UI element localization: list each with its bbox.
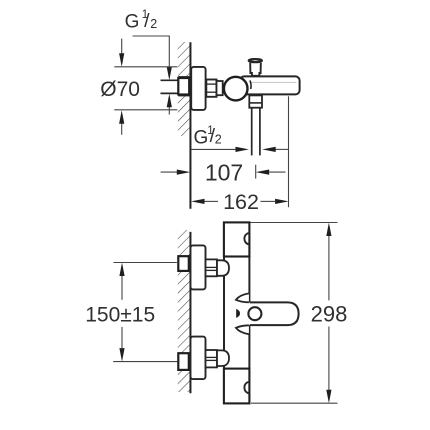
supply pipe stub behind wall bbox=[161, 79, 179, 81]
top escutcheon (plan) bbox=[191, 245, 206, 289]
top union square bbox=[178, 256, 189, 271]
coupling ring bbox=[217, 81, 223, 95]
faint inner line of spout bbox=[251, 81, 297, 83]
svg-text:Ø70: Ø70 bbox=[100, 78, 140, 101]
lower pointer arrow at pipe bbox=[168, 106, 170, 115]
valve body circle (side view) bbox=[224, 77, 248, 101]
shower outlet collar bbox=[249, 95, 262, 107]
298 dim bbox=[328, 236, 330, 300]
svg-text:G: G bbox=[125, 11, 140, 32]
bottom union nut (plan) bbox=[206, 350, 218, 367]
bottom handle nub bbox=[244, 382, 248, 393]
spout (side view) bbox=[240, 76, 300, 94]
fillet arc at spout root bbox=[250, 80, 251, 89]
body right edge segments bbox=[248, 256, 250, 303]
leader line G1/2 top bbox=[133, 36, 170, 68]
knob circle (plan) bbox=[248, 307, 261, 320]
107 dim bbox=[161, 171, 178, 173]
wall surface line (top view) bbox=[189, 42, 191, 209]
dark half-moon mark bbox=[236, 309, 240, 318]
escutcheon (side view) bbox=[191, 67, 205, 110]
wall hatching (plan view) bbox=[178, 230, 190, 392]
svg-text:2: 2 bbox=[150, 17, 157, 31]
upper spout fillet leaf bbox=[236, 293, 249, 302]
svg-text:150±15: 150±15 bbox=[85, 303, 155, 326]
union nipple lips bbox=[178, 76, 190, 78]
150 extension lines bbox=[113, 262, 176, 264]
Ø70 outside arrows bbox=[121, 39, 123, 54]
wall surface line (plan view) bbox=[189, 232, 191, 393]
bottom union square bbox=[178, 353, 189, 370]
bottom handle (plan) bbox=[224, 369, 250, 404]
150±15 dim bbox=[121, 276, 123, 300]
top union nut (plan) bbox=[206, 259, 218, 276]
svg-text:2: 2 bbox=[215, 133, 222, 147]
svg-text:107: 107 bbox=[205, 160, 243, 186]
162 dim bbox=[191, 199, 205, 204]
G1/2 dim line (outlet) bbox=[192, 148, 237, 150]
union hex nut (side view) bbox=[206, 80, 216, 97]
diverter knob on top of spout bbox=[250, 63, 261, 76]
spout (plan view stadium) bbox=[250, 302, 299, 325]
svg-text:/: / bbox=[144, 10, 150, 32]
svg-text:162: 162 bbox=[223, 190, 259, 214]
G1/2 union nipple square (in wall) bbox=[178, 78, 189, 95]
lower spout fillet leaf bbox=[236, 325, 249, 334]
shower outlet tube G1/2 bbox=[251, 108, 253, 156]
wall hatching (top view) bbox=[178, 42, 190, 136]
top olive bbox=[217, 260, 229, 276]
body left edge bbox=[223, 257, 225, 370]
svg-text:298: 298 bbox=[311, 302, 348, 327]
top handle (plan) bbox=[224, 222, 250, 256]
298 extension lines bbox=[251, 222, 338, 224]
bottom olive bbox=[217, 350, 229, 366]
top handle nub bbox=[244, 233, 248, 244]
Ø70 extension lines bbox=[114, 66, 177, 68]
svg-text:G: G bbox=[194, 128, 209, 149]
bottom escutcheon (plan) bbox=[191, 337, 206, 380]
